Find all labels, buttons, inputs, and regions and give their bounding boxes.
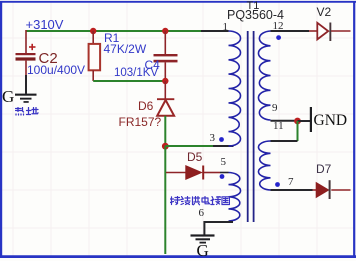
- label C2: [39, 51, 58, 66]
- pin number 11: [273, 121, 284, 132]
- pin number 1: [223, 22, 229, 33]
- phase dot pin 3: [219, 137, 224, 142]
- pin number 12: [273, 21, 284, 32]
- wire down to bottom edge (green): [164, 146, 166, 254]
- wire C2 to ground: [25, 75, 27, 94]
- capacitor C2: [16, 30, 36, 75]
- transformer T1 core: [248, 31, 254, 222]
- label C4: [145, 59, 160, 71]
- wire pin 11 stub (black): [271, 140, 298, 142]
- label D6: [138, 100, 153, 112]
- wire junction down to pin 11 (green): [297, 121, 299, 141]
- 持: [170, 196, 180, 204]
- label hot-ground chinese "热地" (vector strokes): [15, 107, 39, 117]
- label GND: [314, 113, 348, 129]
- wire pin 6 to ground (black): [204, 222, 233, 235]
- GND power port bar: [310, 107, 312, 132]
- wire pin 3 stub (black): [213, 145, 234, 147]
- label G hot ground: [2, 88, 14, 105]
- node junction pin9/GND: [294, 118, 301, 125]
- pin number 5: [221, 157, 227, 168]
- wire pin 9 stub (black): [271, 120, 298, 122]
- wire D6 anode down (green): [164, 116, 166, 146]
- label R1: [104, 32, 119, 44]
- label T1: [247, 1, 260, 12]
- label V2: [317, 6, 332, 18]
- label C4 value: [114, 68, 158, 80]
- label R1 value: [104, 43, 147, 55]
- label D6 value: [119, 116, 162, 128]
- transformer T1 aux winding pins 5-6: [229, 173, 241, 222]
- phase dot pin 7: [275, 182, 280, 187]
- node junction R1/+310V: [90, 28, 96, 34]
- label G cold ground: [197, 242, 209, 259]
- label +310V: [26, 18, 64, 31]
- pin number 3: [210, 133, 216, 144]
- ground symbol G (bottom center): [191, 234, 215, 243]
- wire C4 to bottom net: [164, 62, 166, 81]
- node junction C4/+310V: [162, 28, 168, 34]
- 圈: [222, 196, 230, 204]
- ground symbol (hot ground, left): [15, 94, 37, 103]
- wire junction to pin 3 (green): [165, 145, 213, 147]
- pin number 9: [272, 103, 278, 114]
- diode D5: [166, 166, 220, 180]
- wire rail to C4: [164, 31, 166, 54]
- label D7: [316, 163, 331, 175]
- wire R1 to bottom net: [92, 70, 94, 81]
- wire pin 7 stub (black): [271, 189, 313, 191]
- node junction D6/pin3: [162, 143, 169, 150]
- node junction C4/D6: [162, 78, 168, 84]
- transformer T1 primary winding pins 1-3: [229, 31, 241, 146]
- diode D7: [313, 180, 331, 199]
- phase dot pin 5: [220, 174, 225, 179]
- label C2 value: [27, 64, 85, 76]
- 电: [202, 196, 210, 203]
- transformer T1 secondary winding pins 12-9: [258, 31, 270, 120]
- pin number 6: [199, 208, 205, 219]
- diode D6: [157, 99, 174, 116]
- wire pin1 stub (black): [201, 30, 229, 32]
- diode V2: [317, 23, 331, 42]
- wire V2 anode (dark red): [309, 30, 317, 32]
- wire +310V rail (green): [26, 30, 201, 32]
- label D5: [187, 151, 202, 163]
- wire R1-C4 bottom net (green): [93, 80, 165, 82]
- capacitor C4: [154, 54, 178, 62]
- 线: [211, 196, 221, 204]
- 续: [181, 196, 190, 204]
- phase dot pin 12: [276, 35, 281, 40]
- label aux winding chinese "持续供电线圈" (vector strokes): [170, 196, 230, 207]
- label T1 part number: [227, 9, 284, 22]
- resistor R1: [89, 44, 101, 70]
- wire pin 5 stub (black): [220, 172, 229, 174]
- wire D7 cathode to edge: [331, 189, 350, 191]
- 供: [193, 196, 200, 204]
- wire rail to R1: [92, 31, 94, 44]
- transformer T1 secondary winding pins 11-7: [258, 141, 270, 190]
- wire to D6 cathode: [164, 81, 166, 99]
- wire junction to GND bar (black): [298, 120, 311, 122]
- wire V2 cathode to edge: [331, 30, 351, 32]
- pin number 7: [288, 177, 294, 188]
- wire pin 12 to V2 (black): [271, 30, 310, 32]
